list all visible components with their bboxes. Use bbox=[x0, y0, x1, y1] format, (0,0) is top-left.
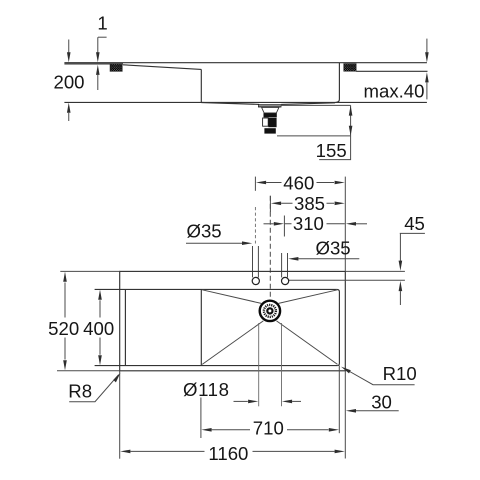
plan: bowl right wall bbox=[337, 289, 340, 365]
svg-text:200: 200 bbox=[53, 72, 84, 93]
dimension max.40: upper shaft arrow bbox=[426, 39, 428, 53]
drain dotted ring bbox=[264, 305, 276, 317]
drain outer ring bbox=[260, 301, 280, 321]
dimension 385 row bbox=[269, 196, 271, 212]
drain band 2 bbox=[264, 128, 275, 133]
plan: bottom edge extension left bbox=[57, 370, 120, 372]
svg-text:310: 310 bbox=[293, 213, 324, 234]
left edge extension down bbox=[119, 371, 121, 459]
right extension line of dim rows bbox=[344, 177, 346, 271]
dimension 1: upper shaft and arrow bbox=[97, 37, 99, 53]
side view: sink rim line (1mm below) bbox=[64, 63, 123, 65]
drain band 1 bbox=[264, 113, 277, 117]
label 155 frame bbox=[319, 136, 350, 160]
bowl diagonal top-right bbox=[279, 290, 338, 304]
counter hatch right bbox=[344, 64, 357, 72]
drain flange bbox=[258, 104, 281, 107]
side view: counter bottom line right bbox=[356, 70, 427, 72]
leader R8 bbox=[69, 375, 118, 402]
right edge extension down bbox=[344, 371, 346, 459]
side view: counter top line bbox=[64, 62, 427, 64]
bowl left wall bbox=[200, 69, 202, 102]
svg-text:400: 400 bbox=[83, 318, 114, 339]
bowl bottom slope bbox=[201, 103, 335, 105]
side view: bottom reference line bbox=[64, 101, 427, 103]
dimension 200: upper arrow bbox=[68, 40, 70, 54]
svg-text:1160: 1160 bbox=[208, 443, 248, 464]
dimension 155: upper ref line bbox=[281, 104, 350, 106]
dimension max.40: lower arrow shaft bbox=[425, 72, 429, 82]
svg-text:460: 460 bbox=[283, 172, 314, 193]
drain center dashed line bbox=[269, 196, 271, 298]
plan: bowl left wall bbox=[200, 289, 202, 365]
faucet hole 2 bbox=[282, 277, 289, 284]
dimension 155: lower ref line bbox=[277, 135, 351, 137]
plan: faucet center line right bbox=[289, 279, 405, 281]
svg-text:45: 45 bbox=[404, 213, 425, 234]
dimension 310 row bbox=[283, 216, 285, 237]
faucet hole 1 bbox=[252, 277, 259, 284]
faucet hole 1 edge lines bbox=[252, 246, 254, 277]
svg-text:Ø118: Ø118 bbox=[183, 379, 230, 400]
counter hatch left bbox=[110, 64, 122, 71]
plan: inner rim bottom line bbox=[95, 365, 338, 367]
svg-text:30: 30 bbox=[371, 391, 392, 412]
svg-text:520: 520 bbox=[48, 318, 79, 339]
dimension 520 bbox=[64, 283, 66, 318]
710 left extension bbox=[200, 398, 202, 439]
svg-text:1: 1 bbox=[97, 12, 107, 33]
drain inner ring bbox=[267, 308, 272, 313]
dimension 400 bbox=[99, 300, 101, 317]
bowl diagonal top-left bbox=[202, 290, 261, 304]
leader diameter 35 right bbox=[288, 257, 298, 261]
dimension 1160 row bbox=[120, 450, 130, 454]
leader R10 bbox=[344, 368, 415, 385]
dimension 460 row bbox=[254, 177, 256, 191]
svg-text:R8: R8 bbox=[68, 381, 92, 402]
svg-text:155: 155 bbox=[316, 140, 347, 161]
dimension 118 arrows bbox=[234, 400, 248, 402]
faucet hole 1 center line bbox=[254, 207, 256, 244]
drain body right block bbox=[268, 118, 276, 127]
sink drainer slope line bbox=[123, 65, 201, 70]
bowl diagonal bottom-right bbox=[277, 321, 338, 365]
plan: sink outer rectangle bbox=[120, 271, 346, 370]
svg-text:max.40: max.40 bbox=[364, 80, 425, 101]
dimension 1: tick bbox=[98, 36, 107, 38]
dimension 1: lower arrow and shaft bbox=[96, 65, 100, 75]
drain body left box bbox=[263, 118, 269, 126]
plan: inner rim top line bbox=[95, 288, 337, 290]
dimension 45: tick and leader bbox=[400, 232, 425, 234]
svg-text:Ø35: Ø35 bbox=[187, 221, 222, 242]
drain taper bbox=[262, 107, 279, 113]
svg-text:R10: R10 bbox=[383, 363, 417, 384]
dimension 155: vertical with arrows bbox=[350, 105, 352, 135]
sink right wall bbox=[336, 63, 340, 103]
plan: inner rim left line bbox=[124, 289, 126, 365]
faucet hole 2 edge lines bbox=[281, 253, 283, 277]
svg-text:385: 385 bbox=[294, 193, 325, 214]
dimension 200: lower arrow bbox=[67, 103, 71, 113]
diameter 118 extension lines bbox=[258, 323, 260, 406]
dimension 710 row bbox=[201, 428, 211, 432]
plan: top edge extensions bbox=[60, 270, 119, 272]
svg-text:710: 710 bbox=[253, 418, 284, 439]
svg-text:Ø35: Ø35 bbox=[316, 237, 351, 258]
leader diameter 35 left bbox=[186, 242, 242, 244]
bowl right edge extension down bbox=[338, 366, 340, 434]
bowl diagonal bottom-left bbox=[202, 321, 263, 365]
